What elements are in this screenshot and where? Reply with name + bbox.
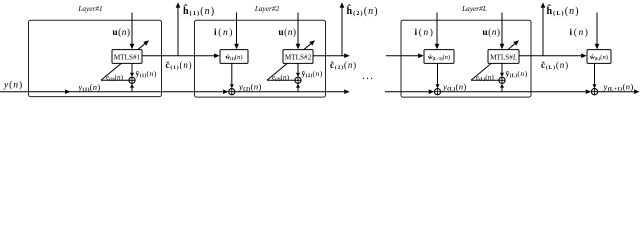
wire branch h-hat_(1)(n) up	[177, 8, 179, 56]
wire branch from main wire up into summer layer 2	[297, 88, 299, 92]
svg-text:ĥ(2)(n): ĥ(2)(n)	[347, 4, 379, 17]
svg-text:ĉ(1)(n): ĉ(1)(n)	[166, 60, 193, 71]
wire i(n) input into w-hat_(L−1)	[436, 13, 438, 44]
wire y_(2)(n) segment	[235, 91, 344, 93]
wire coefficient input resumed into w-hat_(L-1)	[386, 55, 418, 57]
wire error adaptation diagonal arrow through MTLS#2	[267, 44, 311, 80]
svg-text:e(L)(n): e(L)(n)	[476, 72, 494, 81]
svg-text:ĥ(1)(n): ĥ(1)(n)	[183, 4, 215, 17]
wire output of w-hat_(L) down to inline summer	[594, 63, 596, 84]
wire u(n) input into MTLS#2	[297, 13, 299, 44]
svg-text:y(L)(n): y(L)(n)	[442, 82, 467, 93]
wire error adaptation diagonal arrow through MTLS#1	[101, 44, 145, 80]
svg-text:i(n): i(n)	[415, 27, 435, 38]
MTLS#2 adaptive filter box	[283, 50, 313, 64]
svg-text:MTLS#2: MTLS#2	[285, 53, 312, 61]
wire u(n) input into MTLS#L	[501, 13, 503, 44]
wire error feedback horizontal segment layer 1	[101, 79, 129, 81]
wire branch from main wire up into summer layer L	[501, 88, 503, 92]
wire i(n) input into w-hat_(1)	[236, 13, 238, 44]
svg-text:ŷ(L)(n): ŷ(L)(n)	[506, 69, 528, 79]
svg-text:ĉ(L)(n): ĉ(L)(n)	[541, 60, 569, 71]
svg-text:ŷ(2)(n): ŷ(2)(n)	[302, 69, 323, 79]
svg-text:u(n): u(n)	[278, 27, 296, 38]
wire output of w-hat_(L−1) down to inline summer	[437, 63, 439, 84]
wire c-hat_(1)(n) from MTLS#1 to w-hat_(1)	[142, 55, 214, 57]
wire c-hat_(L)(n) from MTLS#L to w-hat_(L)	[519, 55, 581, 57]
svg-text:y(n): y(n)	[3, 79, 23, 90]
wire error feedback horizontal segment layer 2	[267, 79, 295, 81]
inline summer oplus layer L	[434, 89, 440, 95]
coefficient copy box w-hat_(L−1)(n)	[424, 50, 454, 64]
svg-text:Layer#2: Layer#2	[254, 4, 280, 13]
wire branch h-hat_(L)(n) up	[542, 8, 544, 56]
summer oplus error node layer 2	[295, 77, 301, 83]
svg-text:y(L+1)(n): y(L+1)(n)	[603, 82, 634, 93]
summer oplus error node layer 1	[129, 77, 135, 83]
svg-text:MTLS#1: MTLS#1	[114, 53, 141, 61]
svg-text:ŵ(L)(n): ŵ(L)(n)	[590, 54, 608, 61]
coefficient copy box w-hat_(1)(n)	[220, 50, 248, 64]
svg-text:i(n): i(n)	[214, 27, 234, 38]
wire error adaptation diagonal arrow through MTLS#L	[471, 44, 515, 80]
wire i(n) input into w-hat_(L)	[596, 13, 598, 44]
layer 1 enclosure box	[29, 20, 162, 96]
wire output of w-hat_(1) down to inline summer	[231, 63, 233, 84]
svg-text:ĥ(L)(n): ĥ(L)(n)	[547, 4, 580, 17]
svg-text:MTLS#L: MTLS#L	[490, 53, 517, 61]
svg-text:Layer#1: Layer#1	[77, 4, 102, 13]
wire y(n) input segment with arrow	[0, 91, 65, 93]
summer oplus error node layer L	[499, 77, 505, 83]
svg-text:. . .: . . .	[363, 72, 373, 81]
svg-text:y(1)(n): y(1)(n)	[78, 82, 101, 93]
wire yhat output MTLS#1 down to summer	[131, 63, 133, 72]
wire y_(L+1) segment into final summer	[441, 91, 586, 93]
wire resumed into layer L inline summer	[385, 91, 429, 93]
coefficient copy box w-hat_(L)(n)	[587, 50, 611, 64]
final output summer oplus	[591, 89, 597, 95]
wire final output y_(L+1)(n)	[598, 91, 634, 93]
wire branch from main wire up into summer layer 1	[131, 88, 133, 92]
svg-text:ŵ(L−1)(n): ŵ(L−1)(n)	[428, 54, 450, 61]
MTLS#L adaptive filter box	[488, 50, 519, 64]
wire yhat output MTLS#2 down to summer	[297, 63, 299, 72]
svg-text:i(n): i(n)	[570, 27, 590, 38]
svg-text:e(1)(n): e(1)(n)	[106, 72, 124, 81]
wire c-hat_(2)(n) from MTLS#2	[313, 55, 344, 57]
wire y_(1)(n) continuation to layer2 summer	[65, 91, 223, 93]
svg-text:e(2)(n): e(2)(n)	[272, 72, 290, 81]
svg-text:ŷ(1)(n): ŷ(1)(n)	[136, 69, 157, 79]
wire u(n) input into MTLS#1	[131, 13, 133, 44]
svg-text:ĉ(2)(n): ĉ(2)(n)	[330, 60, 357, 71]
inline summer oplus layer 2	[229, 89, 235, 95]
svg-text:y(2)(n): y(2)(n)	[238, 82, 262, 93]
wire branch h-hat_(2)(n) up	[341, 8, 343, 56]
svg-text:u(n): u(n)	[482, 27, 500, 38]
layer L enclosure box	[401, 20, 531, 97]
MTLS#1 adaptive filter box	[112, 50, 142, 64]
wire yhat output MTLS#L down to summer	[501, 63, 503, 72]
svg-text:ŵ(1)(n): ŵ(1)(n)	[225, 54, 242, 61]
wire error feedback horizontal segment layer L	[471, 79, 499, 81]
layer 2 enclosure box	[195, 20, 326, 97]
svg-text:Layer#L: Layer#L	[461, 4, 487, 13]
svg-text:u(n): u(n)	[112, 27, 130, 38]
